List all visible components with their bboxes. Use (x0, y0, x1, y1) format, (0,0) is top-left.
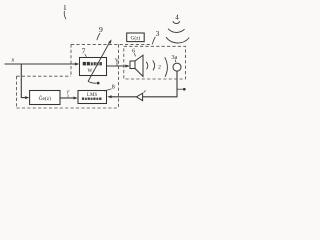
svg-text:3a: 3a (171, 54, 177, 61)
sound waves between speaker and mic (146, 57, 167, 77)
adjustable diagonal arrow through adaptive filter (88, 41, 111, 82)
arrowhead into Ghat(z) (25, 96, 29, 99)
wire: adaptive filter output Y to speaker (107, 65, 126, 67)
wave arc small (146, 62, 148, 70)
wire: branch down to Ghat(z) (21, 64, 26, 98)
adaptive filter box W (80, 58, 107, 76)
svg-text:Ĝe(z): Ĝe(z) (39, 94, 51, 102)
svg-text:LMS: LMS (87, 93, 98, 98)
wire: error mic down and left to LMS (111, 71, 177, 97)
arrowhead into LMS from Ghat (73, 97, 77, 100)
elbow to junction dot (88, 81, 97, 83)
junction dot (97, 82, 100, 85)
svg-text:8: 8 (112, 85, 115, 91)
wire: Ghat(z) to LMS (r) (60, 97, 74, 99)
amplifier triangle on error line (136, 93, 142, 100)
svg-text:9: 9 (99, 25, 103, 34)
wave arc mid (153, 60, 155, 70)
arrowhead into LMS from error line (107, 95, 111, 98)
adaptive filter kanji line (blobs) (83, 62, 102, 66)
svg-text:2: 2 (158, 64, 161, 70)
wire: main input line x (5, 63, 76, 65)
dashed room enclosure (speaker+mic) (124, 46, 186, 79)
LMS katakana line (blobs) (82, 98, 102, 100)
dashed controller enclosure (stepped) (17, 44, 151, 108)
tick and dot on error line (177, 88, 183, 90)
speaker 6 (130, 55, 143, 76)
svg-text:x: x (11, 57, 15, 64)
svg-text:1: 1 (63, 3, 67, 12)
svg-text:G(z): G(z) (131, 35, 141, 42)
Ghat(z) box (30, 91, 60, 105)
LMS box (78, 91, 107, 104)
microphone 3a circle (173, 63, 181, 71)
arrowhead into speaker (125, 65, 129, 68)
wave arc large (165, 57, 168, 77)
noise wave arcs top right (166, 21, 189, 43)
G(z) box (127, 33, 145, 42)
tiny tick above amplifier (144, 90, 146, 92)
svg-text:3: 3 (156, 29, 160, 38)
arrowhead into adaptive filter (75, 63, 79, 66)
svg-text:4: 4 (175, 14, 179, 22)
